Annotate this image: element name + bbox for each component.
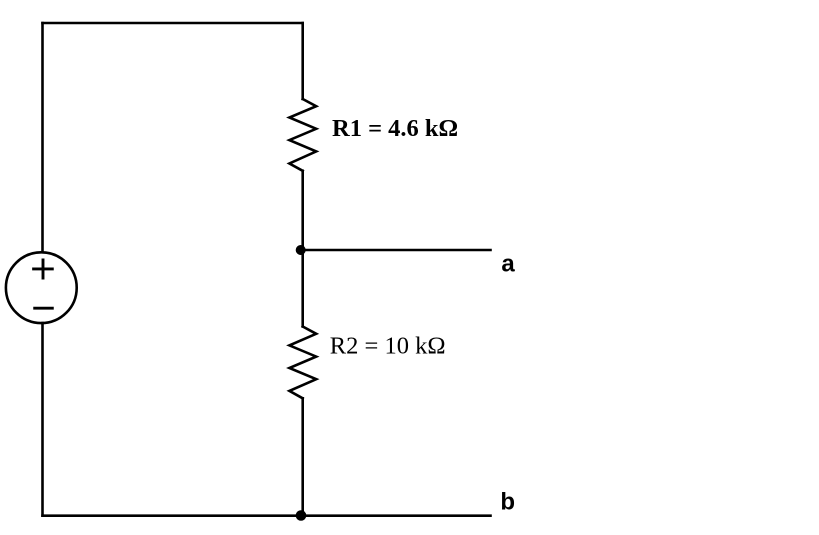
V1 plus symbol xyxy=(34,260,53,278)
svg-text:R2 = 10 kΩ: R2 = 10 kΩ xyxy=(330,333,446,360)
wire: top horizontal xyxy=(43,22,303,25)
junction node b xyxy=(296,510,307,521)
voltage source V1 xyxy=(6,252,77,323)
wire: R2 bottom to node b xyxy=(301,398,304,515)
resistor R2 xyxy=(289,327,316,399)
junction node a xyxy=(296,245,306,255)
wire: R1 bottom to node a xyxy=(301,171,304,250)
V1 minus symbol xyxy=(35,307,53,310)
resistor R1 xyxy=(289,99,316,171)
svg-text:a: a xyxy=(501,250,515,277)
wire: V1 minus terminal down to bottom-left corner xyxy=(41,323,44,516)
wire: left vertical, V1 plus terminal up to top-left corner xyxy=(41,23,44,252)
wire: node a down to R2 top xyxy=(301,250,304,327)
wire: node a to terminal a xyxy=(303,249,491,252)
svg-text:R1 = 4.6 kΩ: R1 = 4.6 kΩ xyxy=(332,115,458,142)
wire: top-right corner down to R1 top xyxy=(301,23,304,99)
svg-text:b: b xyxy=(500,489,515,516)
wire: bottom horizontal, bottom-left corner to terminal b xyxy=(43,514,491,517)
